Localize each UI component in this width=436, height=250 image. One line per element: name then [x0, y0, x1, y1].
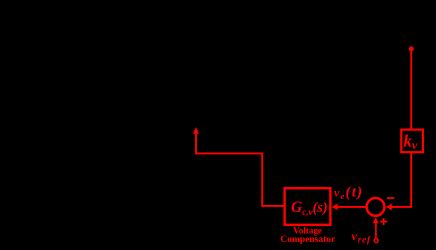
terminal ring vref: [374, 239, 378, 243]
node A (sensed output voltage tap): [409, 46, 414, 51]
svg-text:Gc,v(s): Gc,v(s): [291, 199, 328, 217]
arrowhead vref into summing junction bottom: [373, 217, 379, 223]
svg-text:ve(t): ve(t): [334, 184, 363, 201]
compensator block Gcv: [285, 188, 331, 225]
plus sign (reference input): [380, 218, 387, 225]
gain block kv: [401, 130, 423, 153]
minus sign (feedback input): [387, 197, 395, 199]
svg-text:kv: kv: [404, 131, 419, 152]
svg-text:vref: vref: [352, 229, 372, 245]
wire kv to summing junction: [391, 153, 412, 207]
arrowhead into compensator: [332, 204, 338, 211]
wire vref: [375, 223, 377, 239]
arrowhead up to modulator: [193, 127, 199, 134]
wire summing junction to compensator: [337, 206, 367, 208]
summing junction: [367, 198, 385, 216]
wire compensator output to PWM (up arrow): [196, 133, 284, 206]
arrowhead into summing junction right: [386, 204, 392, 211]
svg-text:Compensator: Compensator: [280, 235, 336, 245]
svg-text:Voltage: Voltage: [293, 225, 322, 235]
wire node A to kv: [410, 50, 412, 129]
